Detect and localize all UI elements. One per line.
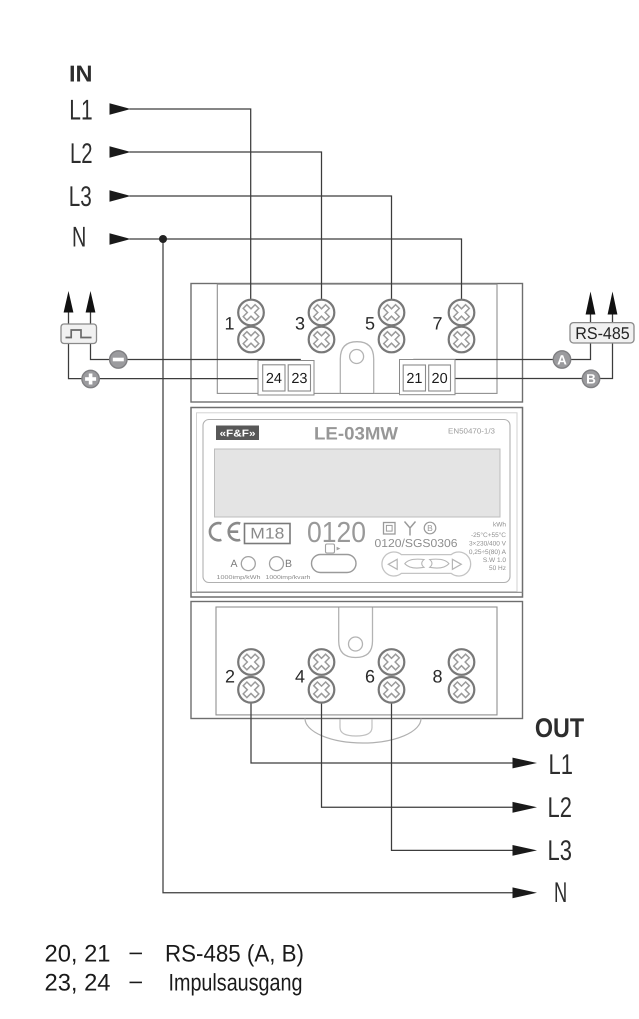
wire out L3: [392, 703, 515, 851]
svg-text:L3: L3: [69, 181, 92, 213]
terminal box 21: [403, 365, 425, 391]
arrowhead L2 in: [110, 146, 131, 158]
svg-text:7: 7: [432, 314, 442, 334]
svg-text:EN50470-1/3: EN50470-1/3: [448, 427, 495, 436]
svg-text:23: 23: [291, 371, 307, 387]
node B: [582, 370, 599, 387]
svg-text:OUT: OUT: [535, 713, 585, 743]
svg-text:3: 3: [295, 314, 305, 334]
nav left triangle: [388, 559, 397, 569]
svg-text:0120/SGS0306: 0120/SGS0306: [375, 538, 458, 550]
svg-text:2: 2: [225, 667, 235, 687]
meter middle section housing: [191, 408, 523, 598]
bottom terminal block inner rect: [216, 607, 497, 715]
svg-text:–: –: [130, 968, 143, 995]
middle section bottom rim line: [191, 591, 523, 593]
wire impulse minus: [91, 344, 301, 365]
middle section inner highlight line: [197, 413, 518, 592]
svg-text:23, 24: 23, 24: [45, 970, 111, 997]
wire RS485 B: [450, 343, 613, 379]
svg-text:20: 20: [432, 371, 448, 387]
wire impulse plus: [69, 344, 264, 379]
svg-text:L2: L2: [548, 792, 572, 824]
junction node N: [159, 235, 167, 243]
svg-text:1000imp/kWh: 1000imp/kWh: [217, 574, 261, 581]
terminal 8 screws: [449, 649, 475, 675]
top tab hole: [350, 350, 364, 364]
svg-text:RS-485 (A, B): RS-485 (A, B): [165, 941, 304, 968]
RS-485 up-arrow 1: [586, 292, 596, 323]
svg-text:3×230/400 V: 3×230/400 V: [469, 541, 507, 548]
terminal 4 screws: [309, 649, 335, 675]
svg-text:kWh: kWh: [493, 522, 506, 529]
svg-text:LE-03MW: LE-03MW: [314, 424, 398, 444]
svg-text:Impulsausgang: Impulsausgang: [169, 970, 303, 997]
bottom inner rect top line crossing tab: [338, 606, 373, 608]
CE mark: [210, 523, 240, 540]
top terminal block inner rect: [217, 284, 497, 393]
pill button: [312, 555, 357, 573]
svg-text:L3: L3: [548, 835, 572, 867]
svg-text:B: B: [427, 523, 433, 533]
terminal block 24/23 outer box: [258, 361, 314, 396]
svg-text:0,25÷5(80) A: 0,25÷5(80) A: [469, 549, 507, 556]
wire out L1: [251, 703, 514, 764]
terminal 5 screws: [379, 300, 405, 326]
arrowhead out L1: [513, 758, 538, 769]
svg-text:S.W 1.0: S.W 1.0: [483, 557, 507, 564]
LED A indicator: [230, 557, 255, 571]
svg-text:0120: 0120: [307, 517, 366, 549]
nav swoosh right: [430, 559, 449, 568]
svg-text:–: –: [130, 939, 143, 966]
small meter icon under 0120: [326, 544, 341, 553]
impulse output box: [61, 324, 97, 344]
terminal box 20: [429, 365, 451, 391]
arrowhead N in: [110, 233, 131, 245]
impulse output up-arrow 1: [64, 291, 74, 324]
LABELPANEL: [203, 420, 510, 583]
arrowhead out L3: [513, 845, 538, 856]
wire L2 in: [130, 152, 322, 300]
Y antenna symbol: [405, 522, 416, 536]
F&F logo: [216, 426, 259, 441]
wire N in: [130, 239, 462, 300]
svg-text:L1: L1: [549, 749, 573, 781]
svg-text:RS-485: RS-485: [575, 324, 630, 343]
svg-text:N: N: [72, 221, 86, 253]
terminal 2 screws: [238, 649, 264, 675]
terminal box 24: [263, 365, 285, 391]
wire out L2: [322, 703, 515, 808]
svg-text:24: 24: [266, 371, 282, 387]
arrowhead out L2: [513, 802, 538, 813]
wire L3 in: [130, 196, 392, 300]
nav swoosh left: [405, 559, 424, 568]
pulse waveform symbol: [66, 330, 92, 338]
terminal 7 screws: [449, 300, 475, 326]
svg-text:6: 6: [365, 667, 375, 687]
svg-text:L1: L1: [69, 94, 92, 126]
svg-text:M18: M18: [250, 526, 284, 543]
svg-text:50 Hz: 50 Hz: [489, 565, 506, 572]
METER BODY: [191, 284, 523, 744]
svg-text:20, 21: 20, 21: [45, 941, 111, 968]
MODULES: [61, 291, 634, 388]
meter top section housing: [191, 284, 523, 403]
terminal 6 screws: [379, 649, 405, 675]
svg-text:L2: L2: [70, 138, 93, 170]
RS-485 box: [570, 323, 634, 343]
arrowhead L3 in: [110, 190, 131, 202]
class II insulation symbol: [384, 523, 396, 535]
svg-text:B: B: [586, 372, 596, 387]
svg-text:«F&F»: «F&F»: [220, 429, 257, 440]
svg-text:1: 1: [224, 314, 234, 334]
LCD display: [215, 449, 501, 517]
svg-text:8: 8: [432, 667, 442, 687]
impulse output up-arrow 2: [86, 291, 96, 324]
svg-text:B: B: [285, 558, 292, 570]
svg-text:-25°C+55°C: -25°C+55°C: [471, 532, 506, 539]
arrowhead L1 in: [110, 103, 131, 115]
wire RS485 A: [414, 343, 591, 365]
svg-text:A: A: [230, 558, 237, 570]
svg-text:5: 5: [365, 314, 375, 334]
RS-485 up-arrow 2: [608, 292, 618, 323]
LED B indicator: [270, 557, 293, 571]
node minus: [110, 351, 127, 368]
DIN clip inner tab: [340, 719, 372, 736]
meter bottom section housing: [191, 602, 523, 719]
wire L1 in: [130, 109, 251, 300]
label panel: [203, 420, 510, 583]
DIN rail clip arc: [305, 719, 421, 744]
terminal 1 screws: [238, 300, 264, 326]
terminal box 23: [288, 365, 310, 391]
node plus: [82, 370, 99, 387]
nav right triangle: [452, 559, 461, 569]
arrowhead out N: [513, 887, 538, 898]
svg-text:IN: IN: [69, 60, 93, 86]
circled B symbol: [424, 522, 436, 534]
wire N branch to output: [163, 239, 514, 893]
svg-text:4: 4: [295, 667, 305, 687]
svg-text:N: N: [554, 877, 567, 909]
top inner rect bottom line crossing tab: [340, 392, 374, 394]
ARROWS: [110, 103, 538, 898]
svg-text:A: A: [557, 352, 567, 367]
nav button cluster: [382, 552, 471, 576]
svg-text:1000imp/kvarh: 1000imp/kvarh: [266, 574, 311, 581]
node A: [553, 351, 570, 368]
M18 box: [245, 524, 291, 544]
bottom tab hole: [349, 637, 363, 651]
svg-text:21: 21: [406, 371, 422, 387]
terminal 3 screws: [309, 300, 335, 326]
bottom mounting tab: [339, 607, 373, 658]
TERMINALS: [224, 300, 474, 703]
terminal block 21/20 outer box: [400, 360, 456, 395]
top mounting tab: [340, 342, 373, 394]
